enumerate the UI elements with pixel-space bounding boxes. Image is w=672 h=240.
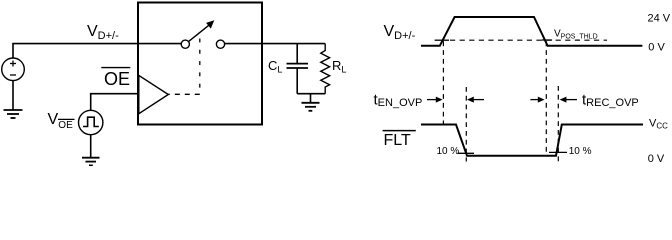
pulse source VOE <box>79 110 103 134</box>
svg-text:CL: CL <box>268 58 282 75</box>
dashed threshold VPOS_THLD line <box>450 39 607 41</box>
DUT box <box>138 3 262 125</box>
svg-text:VD+/-: VD+/- <box>384 23 416 42</box>
FLT waveform <box>421 125 643 156</box>
wire top-left from source to DUT box <box>13 44 138 58</box>
wire source to ground <box>12 81 14 110</box>
capacitor CL <box>296 44 298 63</box>
svg-text:VPOS_THLD: VPOS_THLD <box>554 29 598 41</box>
arrow at marker B <box>471 99 484 101</box>
ground G3 <box>302 103 320 111</box>
buffer U1 triangle <box>139 75 169 113</box>
wire switch to box-right <box>225 43 262 45</box>
svg-text:RL: RL <box>332 58 346 75</box>
svg-text:0 V: 0 V <box>648 42 665 54</box>
dashed marker A rising-threshold <box>442 41 444 124</box>
voltage source V1 <box>2 58 25 81</box>
switch S1 right contact <box>216 40 224 48</box>
wire pulse source to ground <box>90 135 92 158</box>
dashed control line vertical <box>199 39 201 95</box>
wire pulse source to buffer input <box>91 94 138 111</box>
svg-text:VD+/-: VD+/- <box>87 23 119 42</box>
svg-text:tEN_OVP: tEN_OVP <box>374 92 423 110</box>
dashed marker C falling-threshold <box>545 41 547 155</box>
arrow at marker D <box>564 99 578 101</box>
svg-text:tREC_OVP: tREC_OVP <box>582 92 639 110</box>
arrow toward marker C <box>530 99 540 101</box>
wire to ground G3 <box>310 94 312 103</box>
dashed marker D flt-rise <box>557 86 559 164</box>
switch arrowhead <box>206 20 214 28</box>
ground G1 <box>4 110 23 118</box>
wire box-left to switch <box>138 43 181 45</box>
threshold tick rising <box>435 39 449 41</box>
switch arm <box>189 24 211 42</box>
resistor RL <box>321 44 330 94</box>
VD waveform <box>421 17 642 46</box>
10% tick left <box>458 152 475 154</box>
svg-text:10 %: 10 % <box>437 146 460 157</box>
pulse symbol <box>83 117 99 126</box>
ground G2 <box>82 158 100 166</box>
svg-text:FLT: FLT <box>384 132 411 149</box>
svg-text:VCC: VCC <box>649 118 668 131</box>
dashed control line horizontal <box>169 93 200 95</box>
10% tick right <box>549 151 567 153</box>
svg-text:OE: OE <box>58 120 73 131</box>
svg-text:10 %: 10 % <box>569 146 592 157</box>
switch S1 left contact <box>181 40 189 48</box>
svg-text:OE: OE <box>104 69 130 89</box>
wire load bottom <box>297 93 325 95</box>
svg-text:0 V: 0 V <box>648 153 665 165</box>
wire box-right to load <box>262 43 325 45</box>
dashed marker B flt-fall <box>465 87 467 162</box>
threshold tick falling <box>542 39 553 41</box>
tEN_OVP arrow <box>427 99 439 101</box>
svg-text:24 V: 24 V <box>648 12 671 24</box>
svg-text:V: V <box>48 111 59 128</box>
